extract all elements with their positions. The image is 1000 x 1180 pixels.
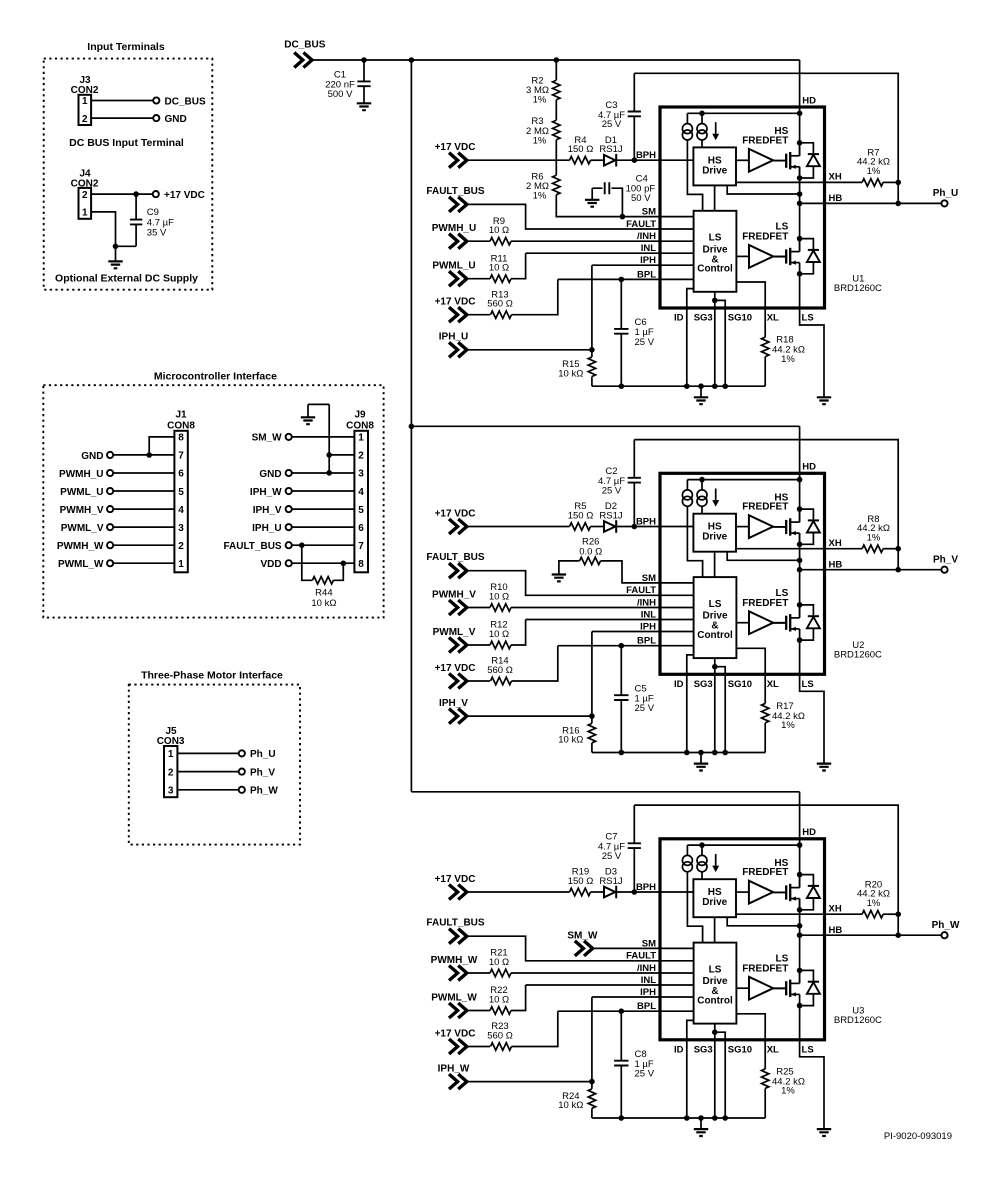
node LS FREDFET W drain junction — [797, 968, 803, 974]
resistor R3 2 MOhm — [553, 120, 560, 139]
current source pair 2 — [701, 845, 703, 855]
LS Drive & Control block — [694, 943, 737, 1024]
svg-text:BPH: BPH — [636, 516, 656, 527]
svg-text:Drive: Drive — [702, 897, 727, 908]
capacitor C6 1uF — [620, 279, 622, 386]
wire INL pin stub — [660, 619, 694, 621]
svg-text:4: 4 — [358, 487, 364, 498]
resistor R11 10 Ohm — [490, 275, 511, 282]
svg-text:1: 1 — [82, 96, 88, 107]
wire HS drive to LS drive — [714, 185, 716, 210]
node SG10 rail junction — [722, 750, 728, 756]
wire J1 pin 6 — [113, 472, 174, 474]
node PWMH_U terminal — [107, 470, 113, 476]
wire BPH pin stub to HS Drive — [660, 891, 693, 893]
wire IPH input to divider node — [467, 1081, 592, 1083]
wire HS drive to buffer — [736, 891, 749, 893]
wire Rgate2 to INL pin — [511, 620, 660, 646]
resistor R25 44.2 kOhm — [762, 1069, 769, 1088]
ground symbol LS — [817, 1129, 831, 1136]
wire XL pin — [736, 282, 765, 337]
node C4/SM junction — [620, 214, 626, 220]
node SG junction — [712, 298, 718, 304]
wire node up to IPH pin — [592, 265, 660, 350]
svg-text:+17 VDC: +17 VDC — [435, 1028, 476, 1039]
wire J9 pin 3 — [292, 472, 355, 474]
resistor R23 560 Ohm — [491, 1043, 512, 1050]
wire SG3 pin — [714, 292, 716, 386]
wire LS drive to buffer — [736, 255, 749, 257]
svg-text:10 kΩ: 10 kΩ — [311, 598, 336, 609]
svg-text:BRD1260C: BRD1260C — [834, 650, 882, 661]
wire J9 pin 2 stub — [329, 454, 354, 456]
svg-text:PWMH_W: PWMH_W — [431, 955, 478, 966]
svg-text:FREDFET: FREDFET — [742, 598, 788, 609]
wire buffer to gate — [773, 891, 786, 893]
svg-text:+17 VDC: +17 VDC — [435, 509, 476, 520]
wire /INH pin stub — [660, 607, 694, 609]
svg-text:1%: 1% — [781, 1086, 795, 1097]
ground symbol C1 — [357, 103, 371, 110]
svg-text:FREDFET: FREDFET — [742, 964, 788, 975]
node PWML_V terminal — [107, 524, 113, 530]
resistor R21 10 Ohm — [490, 969, 511, 976]
svg-text:7: 7 — [178, 451, 184, 462]
wire SM pin stub — [660, 216, 694, 218]
wire FAULT_BUS to FAULT pin — [467, 571, 660, 596]
svg-text:5: 5 — [178, 487, 184, 498]
svg-text:IPH_U: IPH_U — [439, 332, 468, 343]
svg-text:RS1J: RS1J — [599, 876, 622, 887]
wire HB to Ph_U — [800, 202, 942, 204]
svg-text:560 Ω: 560 Ω — [487, 1030, 513, 1041]
svg-text:PWMH_W: PWMH_W — [57, 541, 104, 552]
svg-text:SM_W: SM_W — [252, 433, 283, 444]
node Ph_V terminal — [239, 769, 245, 775]
diode D3 RS1J — [604, 887, 615, 898]
svg-text:Control: Control — [697, 630, 733, 641]
svg-text:HB: HB — [829, 193, 843, 204]
wire R to D anode — [591, 159, 605, 161]
svg-text:HB: HB — [829, 559, 843, 570]
svg-text:Microcontroller Interface: Microcontroller Interface — [154, 370, 277, 382]
ground symbol C4 — [585, 200, 599, 207]
svg-text:10 Ω: 10 Ω — [489, 957, 509, 968]
wire HD vertical — [799, 60, 801, 156]
svg-text:/INH: /INH — [637, 597, 656, 608]
svg-text:XL: XL — [767, 313, 779, 324]
wire XH line — [736, 913, 862, 915]
node HB/boot junction — [895, 201, 901, 207]
svg-text:+17 VDC: +17 VDC — [435, 297, 476, 308]
node LS FREDFET U drain junction — [797, 236, 803, 242]
Microcontroller Interface dashed group box — [43, 385, 383, 617]
svg-text:GND: GND — [81, 451, 103, 462]
node GND terminal — [286, 470, 292, 476]
svg-text:/INH: /INH — [637, 963, 656, 974]
wire IPH pin stub — [660, 631, 694, 633]
svg-text:PWML_W: PWML_W — [431, 992, 477, 1003]
LS Drive & Control block — [694, 211, 737, 292]
wire SG3 pin — [714, 658, 716, 752]
wire Rgate2 to INL pin — [511, 253, 660, 279]
svg-text:560 Ω: 560 Ω — [487, 665, 513, 676]
ground symbol LS — [817, 397, 831, 404]
svg-text:1%: 1% — [533, 135, 547, 146]
wire XH line — [736, 548, 862, 550]
wire J9 pin 8 — [292, 562, 355, 564]
transistor HS FREDFET U — [774, 143, 820, 178]
node Ph_W terminal — [941, 932, 947, 938]
wire DC_BUS rail to HD (phase V) — [411, 425, 799, 427]
wire internal VDD rail — [687, 479, 799, 481]
svg-text:ID: ID — [674, 679, 684, 690]
node GND terminal — [153, 115, 159, 121]
node HS source ref — [797, 558, 803, 564]
svg-text:BRD1260C: BRD1260C — [834, 283, 882, 294]
wire PWMH to Rgate — [467, 972, 490, 974]
wire buffer to LS gate — [773, 988, 786, 990]
svg-text:Ph_V: Ph_V — [933, 555, 958, 566]
svg-text:5: 5 — [358, 505, 364, 516]
wire J1 pin 2 — [113, 544, 174, 546]
node internal rail at HD — [797, 111, 803, 117]
wire switch node vertical — [799, 167, 801, 251]
node PWMH_V terminal — [107, 506, 113, 512]
capacitor C2 4.7uF bootstrap — [633, 440, 635, 527]
wire Rbpl to BPL pin — [512, 1011, 661, 1046]
svg-text:IPH: IPH — [640, 621, 656, 632]
wire SM_W to SM pin — [593, 947, 660, 949]
wire HS drive to LS drive — [714, 552, 716, 577]
wire HB to Ph_W — [800, 934, 942, 936]
node SG junction — [712, 1029, 718, 1035]
node cap bottom junction — [619, 750, 625, 756]
wire LS drive to buffer — [736, 622, 749, 624]
wire FAULT pin stub — [660, 594, 694, 596]
svg-text:25 V: 25 V — [602, 486, 622, 497]
wire buffer to LS gate — [773, 256, 786, 258]
wire ID pin — [687, 289, 694, 387]
wire local ground rail — [592, 752, 765, 754]
svg-text:CON8: CON8 — [346, 420, 374, 431]
ground symbol R26 — [552, 575, 566, 582]
current arrow — [715, 489, 717, 501]
svg-text:Input Terminals: Input Terminals — [87, 41, 165, 53]
node C1 tap — [361, 57, 367, 63]
svg-text:560 Ω: 560 Ω — [487, 299, 513, 310]
svg-text:Control: Control — [697, 264, 733, 275]
svg-text:PWML_U: PWML_U — [60, 487, 103, 498]
wire XH line — [736, 181, 862, 183]
wire IPH pin stub — [660, 264, 694, 266]
svg-text:2: 2 — [178, 541, 184, 552]
svg-text:35 V: 35 V — [147, 228, 167, 239]
node BPL cap top — [619, 277, 625, 283]
svg-text:+17 VDC: +17 VDC — [435, 663, 476, 674]
wire HD vertical — [799, 426, 801, 522]
svg-text:SG10: SG10 — [728, 313, 752, 324]
current arrow — [715, 854, 717, 866]
node IPH divider junction — [589, 1079, 595, 1085]
current source pair 1 — [686, 480, 688, 490]
wire R to D anode — [591, 891, 605, 893]
wire SG10 pin — [715, 667, 725, 753]
svg-text:FREDFET: FREDFET — [742, 867, 788, 878]
svg-text:PWMH_V: PWMH_V — [60, 505, 104, 516]
svg-text:PI-9020-093019: PI-9020-093019 — [884, 1131, 952, 1142]
svg-text:BRD1260C: BRD1260C — [834, 1015, 882, 1026]
HS Drive block — [693, 879, 736, 917]
node LS FREDFET V source junction — [797, 637, 803, 643]
current source pair 1 — [686, 113, 688, 123]
svg-text:BPL: BPL — [637, 269, 656, 280]
capacitor C5 1uF — [620, 646, 622, 753]
svg-text:FAULT_BUS: FAULT_BUS — [426, 186, 484, 197]
wire buffer to LS gate — [773, 622, 786, 624]
wire PWML to Rgate2 — [467, 644, 490, 646]
resistor R6 2 MOhm — [553, 175, 560, 194]
svg-text:ID: ID — [674, 313, 684, 324]
wire D cathode to BPH pin — [616, 891, 660, 893]
wire HD vertical — [799, 792, 801, 888]
node HS source ref — [797, 923, 803, 929]
wire PWMH to Rgate — [467, 607, 490, 609]
current arrow — [715, 122, 717, 134]
node cap bottom junction — [619, 383, 625, 389]
svg-text:+17 VDC: +17 VDC — [435, 874, 476, 885]
svg-text:LS: LS — [802, 679, 814, 690]
wire J1 pin 1 — [113, 562, 174, 564]
wire J4 pin1 to ground — [91, 212, 115, 246]
wire PWMH to Rgate — [467, 240, 490, 242]
svg-text:HD: HD — [802, 95, 816, 106]
node Ph_U terminal — [239, 750, 245, 756]
svg-text:SM_W: SM_W — [567, 930, 598, 941]
svg-text:HB: HB — [829, 925, 843, 936]
svg-text:Ph_W: Ph_W — [932, 920, 960, 931]
node CS2 rail tap — [699, 477, 705, 483]
wire DC_BUS rail to HD (phase U) — [312, 59, 800, 61]
svg-text:PWML_W: PWML_W — [58, 559, 104, 570]
svg-text:DC_BUS: DC_BUS — [284, 40, 325, 51]
node ground stem — [698, 383, 704, 389]
svg-text:FAULT_BUS: FAULT_BUS — [426, 552, 484, 563]
wire IPH input to divider node — [467, 349, 592, 351]
wire buffer to gate — [773, 526, 786, 528]
svg-text:10 Ω: 10 Ω — [489, 629, 509, 640]
wire BPL pin stub — [660, 1010, 694, 1012]
svg-text:J1: J1 — [175, 410, 187, 421]
wire FAULT pin stub — [660, 228, 694, 230]
svg-text:3: 3 — [168, 786, 174, 797]
Three-Phase Motor Interface dashed group box — [129, 685, 300, 845]
svg-text:25 V: 25 V — [635, 703, 655, 714]
wire internal VDD rail — [687, 112, 799, 114]
wire divider top — [555, 60, 557, 80]
wire HS drive source ref — [727, 185, 799, 194]
transistor LS FREDFET V — [774, 605, 820, 640]
node SG10 rail junction — [722, 1115, 728, 1121]
node Ph_W terminal — [239, 787, 245, 793]
node internal rail at HD — [797, 477, 803, 483]
node VDD terminal — [286, 560, 292, 566]
wire CS2 to HS drive — [701, 872, 703, 879]
op-amp / driver IC U2 BRD1260C outline — [660, 473, 825, 674]
wire CS1 to LS drive — [687, 506, 702, 577]
wire SG3 pin — [714, 1024, 716, 1118]
svg-text:FREDFET: FREDFET — [742, 232, 788, 243]
node IPH_V terminal — [286, 506, 292, 512]
svg-text:150 Ω: 150 Ω — [568, 510, 594, 521]
svg-text:GND: GND — [165, 114, 187, 125]
wire BPH pin stub to HS Drive — [660, 159, 693, 161]
wire J9 pin 1 — [292, 436, 355, 438]
ground symbol rail — [700, 753, 702, 764]
wire HB to Ph_V — [800, 569, 942, 571]
wire IPH input to divider node — [467, 715, 592, 717]
node HB tap — [797, 932, 803, 938]
wire J1 pin8 to GND line — [149, 437, 174, 455]
resistor R14 560 Ohm — [491, 677, 512, 684]
node +17VDC terminal — [153, 191, 159, 197]
transistor HS FREDFET V — [774, 509, 820, 544]
node PWML_U terminal — [107, 488, 113, 494]
svg-text:50 V: 50 V — [631, 193, 651, 204]
node HS FREDFET V drain junction — [797, 506, 803, 512]
svg-text:XH: XH — [829, 538, 842, 549]
svg-text:FAULT: FAULT — [626, 585, 656, 596]
node Ph_V terminal — [941, 567, 947, 573]
node ground junction — [113, 244, 119, 250]
node BPH junction — [632, 157, 638, 163]
svg-text:VDD: VDD — [260, 559, 281, 570]
svg-text:Ph_W: Ph_W — [250, 786, 278, 797]
svg-text:LS: LS — [709, 233, 722, 244]
node HS FREDFET U source junction — [797, 175, 803, 181]
wire /INH pin stub — [660, 240, 694, 242]
wire ground tie — [116, 245, 137, 247]
svg-text:7: 7 — [358, 541, 364, 552]
resistor R18 44.2 kOhm — [762, 337, 769, 356]
svg-text:+17 VDC: +17 VDC — [435, 142, 476, 153]
wire CS1 to LS drive — [687, 140, 702, 211]
svg-text:10 kΩ: 10 kΩ — [558, 735, 583, 746]
diode D1 RS1J — [604, 155, 615, 166]
svg-text:1: 1 — [178, 559, 184, 570]
svg-text:FAULT_BUS: FAULT_BUS — [223, 541, 281, 552]
node ID rail junction — [684, 750, 690, 756]
wire J3 pin2 to GND — [91, 117, 153, 119]
wire HS drive to buffer — [736, 526, 749, 528]
wire +17VDC to R series — [467, 891, 570, 893]
wire Rgate2 to INL pin — [511, 985, 660, 1011]
wire +17VDC to Rbpl — [467, 314, 490, 316]
svg-text:10 Ω: 10 Ω — [489, 994, 509, 1005]
svg-text:SG3: SG3 — [694, 1044, 713, 1055]
node HS FREDFET U drain junction — [797, 140, 803, 146]
wire local ground rail — [592, 1117, 765, 1119]
wire BPL pin stub — [660, 278, 694, 280]
op-amp / driver IC U1 BRD1260C outline — [660, 107, 825, 308]
svg-text:Ph_U: Ph_U — [250, 749, 276, 760]
svg-text:CON8: CON8 — [167, 420, 195, 431]
node ground stem — [698, 750, 704, 756]
Input Terminals dashed group box — [44, 59, 213, 290]
wire R to D anode — [591, 526, 605, 528]
wire BPH pin stub to HS Drive — [660, 526, 693, 528]
ground symbol LS — [817, 764, 831, 771]
svg-text:10 Ω: 10 Ω — [489, 225, 509, 236]
capacitor C7 4.7uF bootstrap — [633, 805, 635, 892]
svg-text:2: 2 — [82, 190, 88, 201]
wire CS1 to LS drive — [687, 872, 702, 943]
wire J5 pin 3 — [177, 789, 238, 791]
resistor R7 44.2 kOhm — [862, 179, 883, 186]
wire Rgate to /INH pin — [511, 972, 660, 974]
node CS2 rail tap — [699, 842, 705, 848]
wire XL pin — [736, 1014, 765, 1069]
svg-text:2: 2 — [168, 767, 174, 778]
wire J9 pin 5 — [292, 508, 355, 510]
wire node up to IPH pin — [592, 632, 660, 717]
wire R26 to SM pin — [601, 561, 661, 583]
svg-text:25 V: 25 V — [635, 337, 655, 348]
ground symbol J4 — [115, 246, 117, 261]
wire divider to SM pin — [556, 195, 660, 217]
node SM_W terminal — [286, 434, 292, 440]
node BPH junction — [632, 889, 638, 895]
svg-text:INL: INL — [641, 975, 657, 986]
wire LS pin to ground — [800, 274, 824, 397]
svg-text:SG3: SG3 — [694, 313, 713, 324]
LS Drive & Control block — [694, 577, 737, 658]
svg-text:1: 1 — [358, 433, 364, 444]
wire J5 pin 1 — [177, 752, 238, 754]
wire switch node vertical — [799, 533, 801, 617]
svg-text:Ph_U: Ph_U — [933, 188, 959, 199]
node DC bus tap ch2 — [409, 424, 415, 430]
svg-text:1%: 1% — [867, 532, 881, 543]
svg-text:0.0 Ω: 0.0 Ω — [579, 546, 602, 557]
node DC_BUS terminal — [153, 97, 159, 103]
node IPH divider junction — [589, 713, 595, 719]
svg-text:1%: 1% — [867, 898, 881, 909]
svg-text:RS1J: RS1J — [599, 510, 622, 521]
svg-text:FAULT: FAULT — [626, 219, 656, 230]
svg-text:4: 4 — [178, 505, 184, 516]
svg-text:BPH: BPH — [636, 150, 656, 161]
svg-text:PWML_V: PWML_V — [61, 523, 104, 534]
svg-text:/INH: /INH — [637, 231, 656, 242]
svg-text:3: 3 — [178, 523, 184, 534]
svg-text:Optional External DC Supply: Optional External DC Supply — [55, 272, 198, 284]
wire bootstrap rail C-top to R-XH/HB — [634, 440, 898, 570]
svg-text:PWMH_U: PWMH_U — [432, 223, 476, 234]
op-amp / driver IC U3 BRD1260C outline — [660, 839, 825, 1040]
node cap bottom junction — [619, 1115, 625, 1121]
svg-text:8: 8 — [358, 559, 364, 570]
svg-text:Ph_V: Ph_V — [250, 767, 275, 778]
svg-text:INL: INL — [641, 609, 657, 620]
svg-text:XL: XL — [767, 679, 779, 690]
wire INL pin stub — [660, 252, 694, 254]
capacitor C8 1uF — [620, 1011, 622, 1118]
resistor R19 150 Ohm — [570, 888, 591, 895]
wire PWML to Rgate2 — [467, 1010, 490, 1012]
wire SM pin stub — [660, 947, 694, 949]
svg-text:FAULT: FAULT — [626, 951, 656, 962]
